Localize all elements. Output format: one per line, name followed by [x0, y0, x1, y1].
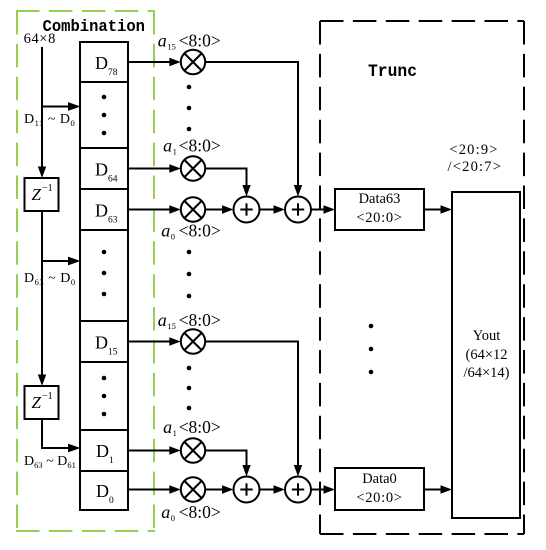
- register cell D1: [96, 441, 114, 466]
- svg-text:1: 1: [173, 428, 177, 438]
- delay Z2: [25, 386, 59, 419]
- wire M6 to adder A3: [205, 485, 234, 493]
- wire A1 to A2: [260, 205, 286, 213]
- svg-text:D63 ~ D0: D63 ~ D0: [24, 271, 76, 287]
- register dots 3: [102, 376, 107, 417]
- wire Data63 to Yout: [424, 205, 452, 213]
- wire M1 to adder A2: [205, 62, 303, 197]
- wire M3 to adder A1: [205, 205, 234, 213]
- wire M5 to adder A3: [205, 451, 251, 477]
- svg-text:a: a: [158, 310, 167, 330]
- svg-text:a: a: [163, 135, 172, 155]
- multiplier M3: [181, 197, 205, 221]
- combination region dashed border: [16, 11, 155, 531]
- wire branch D63~D0 to register: [41, 257, 81, 266]
- svg-text:0: 0: [171, 513, 175, 523]
- label D63~D61: [24, 454, 76, 470]
- svg-text:<20:0>: <20:0>: [356, 490, 402, 506]
- adder A1: [234, 197, 260, 223]
- svg-text:a: a: [158, 30, 167, 50]
- svg-text:<8:0>: <8:0>: [179, 135, 221, 155]
- svg-text:a: a: [163, 417, 172, 437]
- svg-text:<8:0>: <8:0>: [179, 310, 221, 330]
- dots column upper: [187, 85, 192, 132]
- svg-text:D11 ~ D0: D11 ~ D0: [24, 112, 75, 128]
- wire D15 to multiplier M4: [128, 337, 181, 345]
- svg-text:<20:9>: <20:9>: [449, 142, 498, 158]
- svg-text:<8:0>: <8:0>: [179, 417, 221, 437]
- register cell D78: [95, 53, 118, 78]
- wire D78 to multiplier M1: [128, 58, 181, 66]
- svg-text:<8:0>: <8:0>: [179, 30, 221, 50]
- label Trunc: [368, 62, 417, 82]
- wire Z1 to Z2: [38, 211, 46, 386]
- block Yout: [452, 192, 520, 518]
- wire M2 to adder A1: [205, 169, 251, 197]
- delay Z1: [25, 178, 59, 211]
- svg-text:<20:0>: <20:0>: [356, 210, 402, 226]
- multiplier M2: [181, 156, 205, 180]
- svg-text:(64×12: (64×12: [465, 347, 507, 363]
- svg-text:−1: −1: [42, 391, 53, 402]
- register cell D64: [95, 160, 118, 185]
- svg-text:Z: Z: [32, 185, 42, 204]
- svg-text:1: 1: [173, 146, 177, 156]
- svg-text:Yout: Yout: [473, 328, 501, 344]
- dots column lower: [187, 366, 192, 411]
- register cell D0: [96, 481, 114, 506]
- adder A3: [234, 477, 260, 503]
- svg-text:<8:0>: <8:0>: [179, 220, 221, 240]
- wire branch D11~D0 to register: [41, 102, 81, 111]
- block Data0: [335, 468, 424, 510]
- svg-text:Trunc: Trunc: [368, 62, 417, 82]
- wire M4 to adder A4: [205, 342, 303, 477]
- svg-text:Z: Z: [32, 393, 42, 412]
- wire A2 to Data63: [311, 205, 335, 213]
- wire A3 to A4: [260, 485, 286, 493]
- multiplier M1: [181, 50, 205, 74]
- wire D1 to multiplier M5: [128, 446, 181, 454]
- multiplier M6: [181, 477, 205, 501]
- svg-text:a: a: [161, 502, 170, 522]
- label a1 coefficient lower: [163, 417, 221, 438]
- adder A2: [285, 197, 311, 223]
- block Data63: [335, 189, 424, 230]
- wire Data0 to Yout: [424, 485, 452, 493]
- label D11~D0: [24, 112, 75, 128]
- multiplier M4: [181, 329, 205, 353]
- label a0 coefficient lower: [161, 502, 221, 523]
- svg-text:Data0: Data0: [362, 471, 397, 487]
- svg-text:64×8: 64×8: [24, 31, 56, 47]
- wire A4 to Data0: [311, 485, 335, 493]
- register dots 1: [102, 95, 107, 136]
- wire D0 to multiplier M6: [128, 485, 181, 493]
- adder A4: [285, 477, 311, 503]
- label a15 coefficient upper: [158, 30, 221, 51]
- svg-text:Combination: Combination: [43, 18, 146, 37]
- multiplier M5: [181, 438, 205, 462]
- register cell D63: [95, 201, 118, 226]
- svg-text:Data63: Data63: [359, 191, 401, 207]
- label Combination: [43, 18, 146, 37]
- dots trunc column: [369, 324, 374, 375]
- svg-text:/64×14): /64×14): [463, 365, 509, 381]
- register dots 2: [102, 250, 107, 297]
- label a0 coefficient upper: [161, 220, 221, 241]
- wire D64 to multiplier M2: [128, 164, 181, 172]
- label a15 coefficient lower: [158, 310, 221, 331]
- trunc region dashed border: [320, 21, 524, 534]
- wire D63 to multiplier M3: [128, 205, 181, 213]
- svg-text:15: 15: [167, 41, 176, 51]
- svg-text:a: a: [161, 220, 170, 240]
- svg-text:0: 0: [171, 231, 175, 241]
- label output width 20:9 / 20:7: [448, 142, 503, 175]
- label D63~D0: [24, 271, 76, 287]
- dots column middle: [187, 250, 192, 299]
- wire Z2 to register D1: [42, 419, 81, 452]
- svg-text:/<20:7>: /<20:7>: [448, 159, 503, 175]
- register cell D15: [95, 333, 118, 358]
- wire input vertical to Z1: [38, 47, 46, 178]
- label a1 coefficient upper: [163, 135, 221, 156]
- label 64x8 input bus: [24, 31, 56, 47]
- svg-text:15: 15: [167, 321, 176, 331]
- svg-text:−1: −1: [42, 183, 53, 194]
- register stack: [80, 42, 128, 510]
- svg-text:<8:0>: <8:0>: [179, 502, 221, 522]
